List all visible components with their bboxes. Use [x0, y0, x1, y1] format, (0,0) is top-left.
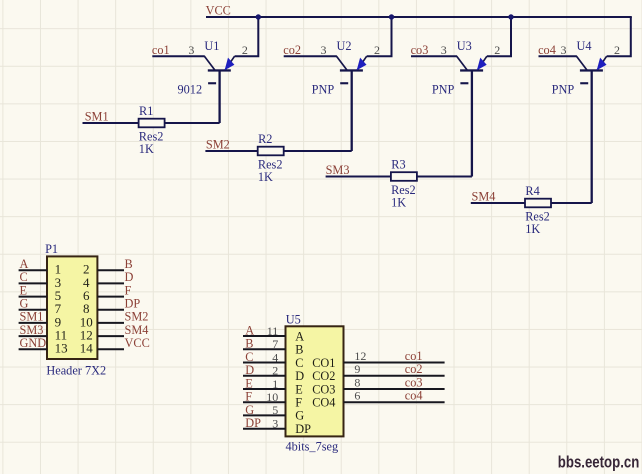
wire E to U5 pin 1: [243, 388, 286, 390]
designator U1: [204, 39, 219, 53]
value label Res2 of R4: [525, 210, 550, 224]
wire co3 to U3 collector pin 3: [411, 55, 457, 57]
pin name 5 inside P1: [55, 288, 62, 303]
net label co3: [411, 43, 429, 57]
pin number 11 of U5: [267, 324, 279, 338]
pin name C inside U5: [295, 356, 303, 370]
wire co1 to U1 collector pin 3: [152, 55, 205, 57]
comment PNP of U3: [432, 83, 455, 97]
svg-text:G: G: [20, 297, 29, 311]
pin name D inside U5: [295, 369, 304, 383]
svg-text:U2: U2: [337, 39, 352, 53]
value label 1K of R4: [525, 222, 540, 236]
net label co2: [283, 43, 301, 57]
svg-text:PNP: PNP: [432, 83, 455, 97]
pin name CO3 inside U5: [312, 382, 335, 396]
net label E (U5 input): [245, 377, 253, 391]
pin number 2 of U5: [272, 364, 278, 378]
svg-text:9012: 9012: [178, 83, 203, 97]
wire U5 CO4 to co4: [344, 401, 445, 403]
net label F (U5 input): [245, 390, 252, 404]
svg-text:CO4: CO4: [312, 396, 335, 410]
pin number 9 of U5: [354, 362, 360, 376]
net label A: [20, 257, 29, 271]
svg-text:SM1: SM1: [20, 310, 44, 324]
wire C to P1 pin 3: [19, 282, 47, 284]
wire SM3 to P1 pin 11: [19, 335, 47, 337]
pin number 2 of U2: [374, 43, 380, 57]
svg-text:SM2: SM2: [206, 137, 230, 151]
junction dot 2 on VCC rail: [389, 14, 394, 19]
svg-text:bbs.eetop.cn: bbs.eetop.cn: [558, 453, 640, 471]
wire R4 right to transistor base: [551, 202, 592, 204]
svg-text:1K: 1K: [525, 222, 540, 236]
svg-text:SM3: SM3: [20, 323, 44, 337]
value label Res2 of R1: [139, 130, 164, 144]
pin number 3 of U5: [272, 417, 278, 431]
pin number 3 of U3: [441, 43, 447, 57]
pin name E inside U5: [295, 382, 303, 396]
power net label VCC: [206, 4, 231, 18]
svg-text:G: G: [295, 409, 304, 423]
wire R2 right to transistor base: [284, 150, 352, 152]
designator R3: [391, 158, 405, 172]
svg-text:VCC: VCC: [125, 336, 150, 350]
svg-text:4bits_7seg: 4bits_7seg: [286, 440, 339, 454]
designator R4: [525, 184, 539, 198]
svg-text:R4: R4: [525, 184, 539, 198]
pin number 2 of U4: [614, 43, 620, 57]
wire P1 pin 4 to D: [97, 282, 124, 284]
svg-text:7: 7: [272, 337, 278, 351]
svg-text:PNP: PNP: [552, 83, 575, 97]
svg-text:3: 3: [321, 43, 327, 57]
net label co1: [405, 349, 423, 363]
pin name 9 inside P1: [55, 314, 62, 329]
svg-text:D: D: [295, 369, 304, 383]
svg-text:CO3: CO3: [312, 382, 335, 396]
svg-text:U1: U1: [204, 39, 219, 53]
svg-text:SM2: SM2: [125, 310, 149, 324]
comment 4bits_7seg of U5: [286, 440, 339, 454]
pin number 12 of U5: [354, 349, 366, 363]
pin name 3 inside P1: [55, 275, 62, 290]
designator R1: [139, 104, 153, 118]
value label 1K of R3: [391, 196, 406, 210]
net label GND: [20, 336, 47, 350]
pin name 2 inside P1: [83, 262, 90, 277]
net label G: [20, 297, 29, 311]
wire SM3 to R3 left: [326, 176, 391, 178]
svg-text:co1: co1: [152, 43, 170, 57]
svg-text:DP: DP: [295, 422, 311, 436]
svg-text:CO1: CO1: [312, 356, 335, 370]
wire P1 pin 8 to DP: [97, 309, 124, 311]
junction dot 3 on VCC rail: [508, 14, 513, 19]
pin number 3 of U4: [561, 43, 567, 57]
svg-text:co4: co4: [405, 389, 423, 403]
svg-text:F: F: [295, 396, 302, 410]
net label SM3: [20, 323, 44, 337]
svg-text:3: 3: [561, 43, 567, 57]
net label C (U5 input): [245, 350, 253, 364]
svg-text:8: 8: [354, 376, 360, 390]
designator U3: [457, 39, 472, 53]
designator U2: [337, 39, 352, 53]
wire A to P1 pin 1: [19, 269, 47, 271]
pin name 10 inside P1: [80, 314, 93, 329]
svg-text:A: A: [295, 329, 304, 343]
wire R3 right to transistor base: [417, 176, 472, 178]
pin number 5 of U5: [272, 403, 278, 417]
wire E to P1 pin 5: [19, 296, 47, 298]
net label co3: [405, 376, 423, 390]
svg-text:5: 5: [272, 403, 278, 417]
svg-text:9: 9: [354, 362, 360, 376]
pin name G inside U5: [295, 409, 304, 423]
pin name 1 inside P1: [55, 262, 62, 277]
pin name CO2 inside U5: [312, 369, 335, 383]
value label 1K of R1: [139, 142, 154, 156]
net label G (U5 input): [245, 403, 254, 417]
svg-text:co2: co2: [283, 43, 301, 57]
net label C: [20, 270, 28, 284]
svg-text:2: 2: [242, 43, 248, 57]
wire U5 CO2 to co2: [344, 375, 445, 377]
svg-text:co2: co2: [405, 362, 423, 376]
svg-text:2: 2: [374, 43, 380, 57]
designator U4: [577, 39, 592, 53]
svg-text:C: C: [295, 356, 303, 370]
pin name B inside U5: [295, 343, 303, 357]
svg-text:SM1: SM1: [85, 109, 109, 123]
net label SM4: [472, 189, 496, 203]
resistor R2 (Res2 1K): [258, 147, 284, 156]
pin name 14 inside P1: [80, 341, 94, 356]
pin number 3 of U2: [321, 43, 327, 57]
pin number 4 of U5: [272, 350, 278, 364]
net label co2: [405, 362, 423, 376]
svg-text:DP: DP: [125, 297, 141, 311]
wire SM4 to R4 left: [471, 202, 525, 204]
IC U5 body (4bits_7seg): [286, 326, 344, 436]
svg-text:13: 13: [55, 341, 68, 356]
net label SM4: [125, 323, 149, 337]
wire U1 base down to R1: [218, 70, 220, 123]
wire SM1 to R1 left: [83, 122, 139, 124]
svg-text:A: A: [20, 257, 29, 271]
wire SM2 to R2 left: [205, 150, 257, 152]
svg-text:3: 3: [188, 43, 194, 57]
svg-text:CO2: CO2: [312, 369, 335, 383]
pin number 8 of U5: [354, 376, 360, 390]
net label DP: [125, 297, 141, 311]
pin name A inside U5: [295, 329, 304, 343]
value label Res2 of R3: [391, 183, 416, 197]
svg-text:D: D: [125, 270, 134, 284]
resistor R4 (Res2 1K): [525, 199, 551, 208]
svg-text:VCC: VCC: [206, 4, 231, 18]
svg-text:U4: U4: [577, 39, 592, 53]
wire U1 emitter pin 2 to VCC rail: [235, 17, 259, 56]
svg-text:11: 11: [267, 324, 279, 338]
wire P1 pin 10 to SM2: [97, 322, 124, 324]
pin name 6 inside P1: [83, 288, 90, 303]
svg-text:R3: R3: [391, 158, 405, 172]
pin name DP inside U5: [295, 422, 311, 436]
wire B to U5 pin 7: [243, 348, 286, 350]
resistor R3 (Res2 1K): [391, 172, 417, 181]
net label A (U5 input): [245, 324, 254, 338]
pin number 10 of U5: [266, 390, 278, 404]
svg-text:U3: U3: [457, 39, 472, 53]
svg-text:1K: 1K: [139, 142, 154, 156]
pin number 7 of U5: [272, 337, 278, 351]
pin number 1 of U5: [272, 377, 278, 391]
net label E: [20, 283, 28, 297]
svg-text:R1: R1: [139, 104, 153, 118]
designator U5: [286, 312, 301, 326]
svg-text:3: 3: [441, 43, 447, 57]
value label 1K of R2: [258, 170, 273, 184]
svg-text:SM4: SM4: [125, 323, 149, 337]
transistor U3 (PNP PNP): [457, 56, 487, 84]
net label co4: [538, 43, 556, 57]
svg-text:P1: P1: [45, 242, 58, 256]
wire D to U5 pin 2: [243, 375, 286, 377]
wire P1 pin 12 to SM4: [97, 335, 124, 337]
pin name 12 inside P1: [80, 328, 93, 343]
net label SM1: [85, 109, 109, 123]
svg-text:E: E: [20, 283, 28, 297]
wire U5 CO1 to co1: [344, 362, 445, 364]
wire R1 right to transistor base: [165, 122, 220, 124]
value label Res2 of R2: [258, 158, 283, 172]
pin name CO1 inside U5: [312, 356, 335, 370]
svg-text:co4: co4: [538, 43, 556, 57]
wire P1 pin 14 to VCC: [97, 348, 124, 350]
svg-text:6: 6: [354, 389, 360, 403]
comment PNP of U4: [552, 83, 575, 97]
svg-text:co3: co3: [411, 43, 429, 57]
wire U3 base down to R3: [471, 70, 473, 176]
svg-text:2: 2: [494, 43, 500, 57]
wire P1 pin 2 to B: [97, 269, 124, 271]
svg-text:co1: co1: [405, 349, 423, 363]
net label SM3: [326, 163, 350, 177]
designator R2: [258, 132, 272, 146]
svg-text:F: F: [125, 283, 132, 297]
svg-text:U5: U5: [286, 312, 301, 326]
transistor U2 (PNP PNP): [337, 56, 367, 84]
svg-text:SM3: SM3: [326, 163, 350, 177]
svg-text:2: 2: [272, 364, 278, 378]
pin name 7 inside P1: [55, 301, 62, 316]
pin name 13 inside P1: [55, 341, 68, 356]
net label SM2: [206, 137, 230, 151]
junction dot 1 on VCC rail: [256, 14, 261, 19]
pin name CO4 inside U5: [312, 396, 335, 410]
svg-text:2: 2: [614, 43, 620, 57]
wire GND to P1 pin 13: [19, 348, 47, 350]
resistor R1 (Res2 1K): [139, 119, 165, 128]
net label B: [125, 257, 133, 271]
net label co4: [405, 389, 423, 403]
wire U4 emitter pin 2 to VCC rail: [607, 17, 631, 56]
wire U2 base down to R2: [351, 70, 353, 151]
wire VCC rail: [206, 16, 632, 18]
svg-text:1: 1: [272, 377, 278, 391]
net label F: [125, 283, 132, 297]
wire co4 to U4 collector pin 3: [539, 55, 577, 57]
designator P1: [45, 242, 58, 256]
net label VCC: [125, 336, 150, 350]
comment 9012 of U1: [178, 83, 203, 97]
wire DP to U5 pin 3: [243, 428, 286, 430]
svg-text:R2: R2: [258, 132, 272, 146]
connector P1 body (Header 7X2): [47, 256, 97, 359]
svg-text:PNP: PNP: [312, 83, 335, 97]
wire A to U5 pin 11: [243, 335, 286, 337]
pin name 4 inside P1: [83, 275, 90, 290]
svg-text:4: 4: [272, 350, 278, 364]
svg-text:10: 10: [266, 390, 278, 404]
wire G to P1 pin 7: [19, 309, 47, 311]
pin name F inside U5: [295, 396, 302, 410]
wire U2 emitter pin 2 to VCC rail: [367, 17, 392, 56]
pin name 11 inside P1: [55, 328, 68, 343]
svg-text:1K: 1K: [391, 196, 406, 210]
svg-text:GND: GND: [20, 336, 47, 350]
svg-text:B: B: [125, 257, 133, 271]
wire G to U5 pin 5: [243, 414, 286, 416]
wire P1 pin 6 to F: [97, 296, 124, 298]
net label D: [125, 270, 134, 284]
svg-text:co3: co3: [405, 376, 423, 390]
pin number 3 of U1: [188, 43, 194, 57]
svg-text:C: C: [20, 270, 28, 284]
wire U5 CO3 to co3: [344, 388, 445, 390]
wire C to U5 pin 4: [243, 362, 286, 364]
wire U3 emitter pin 2 to VCC rail: [487, 17, 511, 56]
svg-text:12: 12: [354, 349, 366, 363]
net label SM1: [20, 310, 44, 324]
watermark bbs.eetop.cn: [558, 453, 640, 471]
net label SM2: [125, 310, 149, 324]
net label D (U5 input): [245, 363, 254, 377]
pin number 2 of U1: [242, 43, 248, 57]
comment Header 7X2 of P1: [46, 364, 106, 378]
transistor U4 (PNP PNP): [577, 56, 607, 84]
svg-text:B: B: [295, 343, 303, 357]
net label co1: [152, 43, 170, 57]
pin number 6 of U5: [354, 389, 360, 403]
svg-text:14: 14: [80, 341, 94, 356]
pin name 8 inside P1: [83, 301, 90, 316]
wire co2 to U2 collector pin 3: [284, 55, 337, 57]
svg-text:Header 7X2: Header 7X2: [46, 364, 106, 378]
wire SM1 to P1 pin 9: [19, 322, 47, 324]
svg-text:1K: 1K: [258, 170, 273, 184]
transistor U1 (9012 PNP): [204, 56, 234, 84]
svg-text:3: 3: [272, 417, 278, 431]
comment PNP of U2: [312, 83, 335, 97]
net label B (U5 input): [245, 337, 253, 351]
net label DP (U5 input): [245, 416, 261, 430]
svg-text:E: E: [295, 382, 303, 396]
pin number 2 of U3: [494, 43, 500, 57]
wire F to U5 pin 10: [243, 401, 286, 403]
wire U4 base down to R4: [591, 70, 593, 203]
svg-text:SM4: SM4: [472, 189, 496, 203]
